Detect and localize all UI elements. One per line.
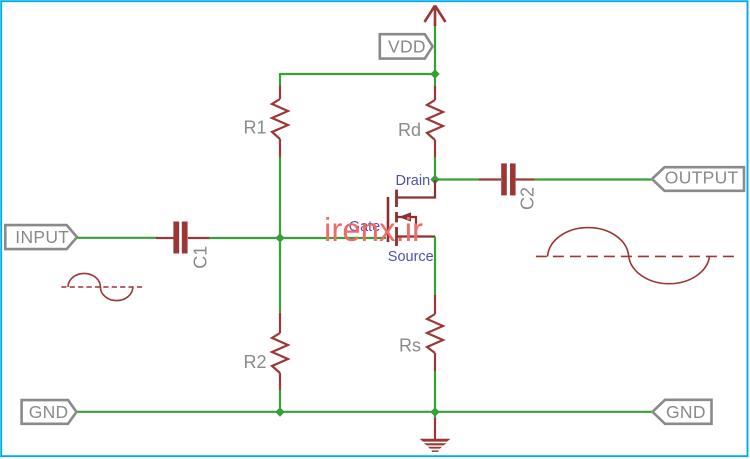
junction top rail node [430, 69, 439, 78]
tag INPUT [5, 225, 77, 249]
resistor Rs [427, 295, 443, 372]
tag GND left [22, 400, 77, 424]
wire VDD vertical [434, 25, 436, 86]
wire Rs to ground rail [434, 371, 436, 420]
wire source to Rs [434, 237, 436, 297]
tag OUTPUT [652, 167, 744, 191]
tag GND right [653, 400, 712, 424]
wire C2 to OUTPUT [534, 178, 653, 180]
resistor R2 [272, 313, 288, 391]
svg-text:INPUT: INPUT [15, 227, 69, 247]
input sine waveform [61, 273, 145, 300]
transistor Q1 drain lead [397, 180, 435, 198]
svg-text:OUTPUT: OUTPUT [665, 167, 739, 187]
transistor Q1 gate plate [387, 197, 390, 242]
svg-text:C1: C1 [191, 246, 211, 269]
wire Rd to drain node [434, 157, 436, 180]
svg-text:R2: R2 [244, 352, 267, 372]
label Rs [399, 336, 421, 356]
pin label Drain [396, 173, 431, 189]
label Rd [398, 120, 421, 140]
wire bottom ground rail [77, 411, 653, 413]
svg-text:C2: C2 [518, 187, 538, 210]
svg-text:Rs: Rs [399, 336, 421, 356]
resistor Rd [427, 86, 443, 158]
wire drain node to C2 [435, 178, 479, 180]
transistor Q1 channel segments [395, 190, 398, 246]
capacitor C2 [479, 163, 535, 195]
svg-text:Rd: Rd [398, 120, 421, 140]
svg-text:irenx.ir: irenx.ir [324, 211, 423, 248]
output sine waveform [536, 228, 735, 284]
junction drain node [430, 175, 439, 184]
pin label Source [388, 249, 434, 265]
pin label Gate [349, 219, 380, 235]
junction input node [275, 233, 284, 242]
watermark irenx.ir [324, 211, 423, 248]
transistor Q1 source lead [397, 235, 435, 237]
tag VDD [380, 34, 433, 58]
transistor Q1 bulk arrow [397, 212, 416, 236]
wire R1 top lead [279, 73, 281, 86]
capacitor C1 [156, 222, 210, 254]
label R2 [244, 352, 267, 372]
wire INPUT to C1 [77, 237, 157, 239]
power arrow VDD supply symbol [425, 6, 446, 27]
resistor R1 [272, 85, 288, 158]
label C1 [191, 246, 211, 269]
label R1 [244, 118, 267, 138]
svg-text:R1: R1 [244, 118, 267, 138]
junction Rs ground node [430, 407, 439, 416]
svg-text:VDD: VDD [388, 36, 426, 56]
svg-text:Source: Source [388, 249, 434, 265]
ground symbol [420, 418, 451, 452]
wire top rail [280, 73, 435, 75]
wire R2 to ground rail [279, 390, 281, 412]
label C2 [518, 187, 538, 210]
svg-text:Drain: Drain [396, 173, 431, 189]
svg-text:GND: GND [29, 402, 69, 422]
wire left rail mid [279, 157, 281, 314]
svg-text:GND: GND [666, 402, 706, 422]
wire C1 to gate [209, 237, 386, 239]
junction R2 ground node [275, 407, 284, 416]
